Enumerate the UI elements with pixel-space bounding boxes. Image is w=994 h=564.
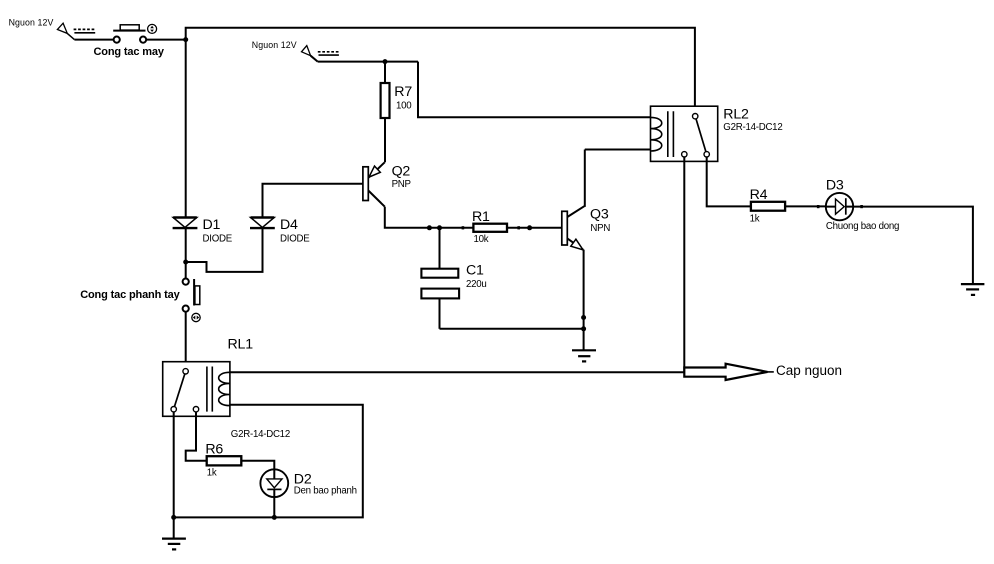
junction dot bottom rail left — [171, 515, 176, 520]
ground (Q3) — [572, 350, 596, 361]
svg-text:10k: 10k — [474, 234, 489, 245]
tick mark left of R1 — [462, 226, 465, 229]
svg-text:1k: 1k — [207, 468, 217, 479]
wire switch 2 to RL1 — [185, 312, 187, 369]
resistor R1 — [473, 224, 561, 232]
svg-text:Nguon 12V: Nguon 12V — [9, 17, 54, 27]
wire RL1 common to ground — [173, 412, 175, 539]
wire P2 to R7 node and RL2 coil top — [318, 62, 651, 118]
svg-text:C1: C1 — [466, 263, 484, 279]
junction dot below D1 — [183, 260, 188, 265]
svg-text:RL2: RL2 — [723, 106, 749, 122]
svg-text:DIODE: DIODE — [203, 234, 233, 245]
tick mark right of D3 — [860, 205, 863, 208]
LED D3 Chuong bao dong — [826, 193, 853, 220]
relay RL1 — [163, 362, 230, 417]
junction dot (left) — [427, 225, 432, 230]
diode D4 — [250, 218, 275, 229]
resistor R7 — [381, 62, 390, 163]
relay RL2 — [651, 106, 718, 161]
pushbutton Cong tac phanh tay — [183, 279, 201, 322]
svg-text:DIODE: DIODE — [280, 234, 310, 245]
svg-text:Q2: Q2 — [392, 164, 411, 180]
bottom rail to RL1 coil bottom — [174, 405, 363, 518]
svg-text:Q3: Q3 — [590, 206, 609, 222]
svg-text:Nguon 12V: Nguon 12V — [252, 40, 297, 50]
wire D4 top to Q2 base — [263, 184, 363, 217]
junction dot emitter lower — [581, 326, 586, 331]
svg-text:G2R-14-DC12: G2R-14-DC12 — [231, 429, 290, 440]
resistor R4 — [751, 202, 785, 211]
junction dot R1-Q3 — [527, 225, 532, 230]
svg-text:Cong tac phanh tay: Cong tac phanh tay — [80, 289, 180, 301]
junction dot C1 tap — [437, 225, 442, 230]
diode D1 — [173, 218, 198, 229]
svg-text:R6: R6 — [205, 441, 223, 457]
wire top rail to RL2 common — [186, 28, 695, 114]
tick mark right of R1 — [517, 226, 520, 229]
wire node A down to D1 — [185, 40, 187, 217]
wire C1 bottom to emitter node — [440, 328, 584, 330]
wire D3 to ground — [853, 207, 973, 285]
wire R4 to D3 — [785, 205, 826, 207]
svg-text:NPN: NPN — [590, 223, 610, 234]
junction dot emitter upper — [581, 315, 586, 320]
power terminal P2 Nguon 12V — [302, 46, 339, 62]
svg-text:1k: 1k — [750, 214, 760, 225]
junction dot R7 top — [383, 59, 388, 64]
svg-text:Den bao phanh: Den bao phanh — [294, 485, 357, 496]
wire RL1 pin2 jog to R6 — [186, 412, 207, 461]
svg-text:D4: D4 — [280, 217, 298, 233]
Cap nguon arrow — [684, 364, 767, 380]
wire RL2 NO pin down to Cap nguon node — [683, 157, 685, 372]
capacitor C1 — [421, 228, 459, 329]
ground (RL1) — [162, 539, 186, 550]
wire P1 to switch — [74, 39, 113, 41]
pushbutton Cong tac may — [113, 24, 156, 42]
wire RL2 NC pin to R4 — [707, 157, 751, 206]
power terminal P1 Nguon 12V — [57, 23, 96, 39]
svg-text:Cong tac may: Cong tac may — [94, 46, 165, 58]
wire RL1 coil top to Cap nguon node — [230, 371, 684, 373]
leader dash to label — [768, 371, 774, 373]
junction dot D2 bottom — [272, 515, 277, 520]
wire Q3 collector to RL2 coil bottom — [585, 149, 651, 151]
svg-text:Chuong bao dong: Chuong bao dong — [826, 221, 899, 232]
resistor R6 — [207, 456, 242, 465]
svg-text:R7: R7 — [394, 84, 412, 100]
wire switch to node A — [146, 39, 186, 41]
svg-text:100: 100 — [396, 101, 412, 112]
transistor Q3 — [562, 150, 585, 329]
ground (D3) — [961, 284, 985, 295]
wire emitter to ground — [583, 329, 585, 351]
svg-text:D3: D3 — [826, 177, 844, 193]
svg-text:PNP: PNP — [392, 179, 411, 190]
svg-text:220u: 220u — [466, 279, 487, 290]
wire D1 bottom to D4 bottom jog — [186, 228, 263, 272]
svg-text:R1: R1 — [472, 209, 490, 225]
tick mark left of D3 — [817, 205, 820, 208]
svg-text:R4: R4 — [750, 187, 768, 203]
wire junction to switch 2 — [185, 262, 187, 279]
wire D2 bottom — [273, 497, 275, 517]
node A junction dot — [183, 37, 188, 42]
wire Q2 collector rail — [385, 207, 474, 228]
transistor Q2 — [363, 162, 385, 206]
svg-text:Cap nguon: Cap nguon — [776, 363, 842, 378]
wire R6 to D2 — [241, 461, 274, 470]
svg-text:D1: D1 — [203, 217, 221, 233]
svg-text:RL1: RL1 — [228, 337, 254, 353]
LED D2 Den bao phanh — [260, 469, 288, 497]
svg-text:G2R-14-DC12: G2R-14-DC12 — [723, 122, 782, 133]
